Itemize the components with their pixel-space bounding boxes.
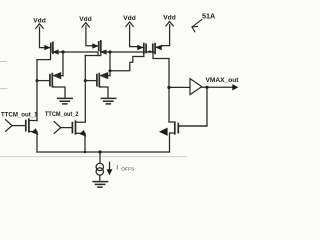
svg-text:TTCM_out_1: TTCM_out_1 — [1, 111, 38, 118]
current direction arrow — [109, 162, 111, 170]
transistor P1 bars — [51, 42, 53, 53]
transistor P1 source arrow — [44, 47, 50, 49]
transistor N2 source arrow — [80, 130, 87, 137]
junction dot M4 gate — [84, 79, 87, 82]
input pin 1 chevron — [6, 120, 13, 132]
wire current source to ground — [99, 175, 101, 181]
wire Vdd4 stem — [163, 25, 170, 46]
Vdd symbol 2 — [82, 23, 89, 27]
ground GND3 — [93, 182, 107, 188]
junction dot buffer input — [167, 86, 170, 89]
transistor P3 bars — [99, 41, 101, 52]
svg-text:OFFS: OFFS — [121, 167, 134, 172]
transistor N2 bars — [72, 121, 75, 134]
wire bottom rail — [37, 151, 170, 153]
transistor N3 bars — [175, 122, 179, 134]
transistor P6 bars — [153, 44, 155, 54]
wire node A horizontal (P1 gate / P2 drain / col2 link) — [54, 52, 98, 56]
transistor N2 source elbow — [76, 133, 86, 152]
transistor P5 bars — [144, 44, 146, 54]
Vdd symbol 4 — [166, 22, 173, 26]
transistor P5 source arrow — [137, 46, 143, 49]
node A junction dot — [61, 50, 64, 53]
output arrowhead VMAX_out — [232, 84, 238, 90]
transistor M4 source elbow — [100, 87, 108, 98]
transistor M2 gate lead — [37, 80, 50, 82]
Vdd symbol 3 — [126, 22, 133, 26]
transistor N1 source elbow — [29, 132, 37, 153]
transistor P5 gate tick — [147, 50, 150, 52]
wire left column vertical (P1 drain to N1 drain, M2 gate) — [36, 60, 38, 121]
transistor M2 drain arrow — [54, 73, 63, 78]
wire Vdd3 stem — [130, 25, 137, 46]
svg-text:I: I — [116, 164, 118, 171]
svg-text:VMAX_out: VMAX_out — [206, 77, 240, 84]
transistor N3 gate lead — [178, 125, 207, 127]
wire mid column vertical (P3 drain to N2 drain, M4 gate) — [84, 56, 86, 122]
wire Vdd2 stem — [86, 26, 92, 46]
junction dot feedback — [205, 86, 208, 89]
wire buffer output — [202, 86, 234, 88]
ground GND1 — [58, 98, 72, 104]
wire to current source — [99, 152, 101, 163]
junction dot staircase — [109, 69, 112, 72]
input pin 2 chevron — [54, 122, 61, 134]
svg-text:TTCM_out_2: TTCM_out_2 — [45, 111, 79, 118]
transistor P1 drain elbow to left rail — [37, 53, 51, 59]
wire N1 drain riser joins left rail above — [36, 119, 38, 121]
junction dot rail left-mid — [84, 151, 86, 153]
transistor M4 bars — [97, 74, 99, 87]
transistor N1 bars — [26, 119, 29, 132]
junction dot M2 gate — [36, 79, 39, 82]
current source I1 circle lower — [96, 168, 103, 175]
transistor M4 drain arrow — [101, 73, 110, 78]
wire input 2 — [61, 127, 72, 129]
scan noise dash left 2 — [0, 88, 7, 90]
wire node B horizontal (P3 gate line to right pair) — [102, 51, 155, 53]
scan noise dash left 1 — [0, 61, 6, 63]
transistor P6 source arrow — [156, 46, 163, 48]
wire staircase to right pair — [110, 57, 144, 71]
wire output node vertical — [168, 59, 170, 123]
current source I1 circle upper — [96, 163, 103, 170]
wire Vdd1 stem — [40, 27, 45, 47]
Vdd symbol 1 — [36, 24, 43, 28]
transistor P6 drain elbow — [153, 53, 169, 58]
wire input 1 — [12, 125, 25, 127]
wire P4 drain riser — [109, 52, 111, 76]
junction dot rail mid — [98, 150, 101, 153]
svg-text:51A: 51A — [202, 12, 215, 21]
transistor P3 gate-node arrow — [102, 50, 106, 54]
node B junction dot — [108, 50, 111, 53]
ground GND2 — [101, 98, 115, 104]
transistor N3 source arrow — [159, 128, 168, 136]
buffer U1 triangle — [190, 79, 202, 95]
transistor P3 drain elbow to column rail — [85, 52, 101, 56]
pointer arrow 51A — [192, 20, 202, 32]
scan noise line — [0, 156, 186, 158]
svg-text:Vdd: Vdd — [79, 16, 91, 23]
transistor P3 source arrow — [92, 45, 99, 47]
transistor M2 bars — [50, 74, 52, 87]
transistor P1 gate-node arrow — [54, 50, 58, 54]
wire buffer input — [169, 86, 190, 88]
transistor M4 gate lead — [85, 80, 96, 82]
transistor N1 drain lead — [29, 120, 37, 122]
transistor N3 drain elbow — [169, 121, 175, 123]
transistor N2 drain lead — [76, 121, 86, 123]
transistor P6 gate tick — [150, 50, 153, 52]
transistor P5 drain elbow — [143, 53, 145, 56]
wire P2 drain riser — [62, 52, 64, 76]
transistor N3 source elbow — [170, 133, 175, 152]
transistor M2 source elbow — [53, 87, 65, 98]
wire feedback to M5 gate — [179, 87, 207, 126]
transistor N1 source arrow — [32, 128, 39, 135]
